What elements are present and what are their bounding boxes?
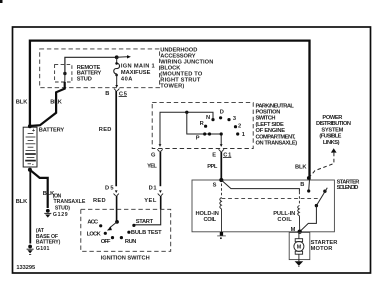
- svg-text:BLK: BLK: [16, 99, 28, 105]
- svg-text:B: B: [105, 91, 109, 97]
- svg-text:COIL: COIL: [204, 217, 217, 223]
- wire: battery positive cable BLK (left riser, top bus, drop to solenoid B): [30, 41, 310, 180]
- svg-text:POSITION: POSITION: [256, 109, 281, 115]
- starter motor symbol: [298, 232, 300, 239]
- svg-text:COIL: COIL: [277, 217, 292, 223]
- svg-text:G101: G101: [36, 246, 50, 252]
- svg-text:BATTERY): BATTERY): [36, 240, 61, 246]
- svg-text:E: E: [212, 153, 216, 159]
- svg-text:-: -: [32, 161, 34, 167]
- svg-text:3: 3: [233, 116, 236, 122]
- svg-text:BLK: BLK: [16, 199, 28, 205]
- ignition switch (dashed box): [81, 209, 171, 251]
- starter motor box: [289, 232, 310, 259]
- svg-text:MAXIFUSE: MAXIFUSE: [121, 70, 151, 76]
- terminal E / C1 (arrow + cup): [220, 144, 223, 147]
- contact 2: [234, 125, 237, 128]
- contact P (pair): [203, 132, 206, 135]
- svg-text:YEL: YEL: [147, 163, 157, 169]
- wire: junction to P contacts and E drop: [187, 112, 221, 146]
- svg-text:BATTERY: BATTERY: [39, 128, 65, 134]
- svg-text:B: B: [300, 182, 304, 188]
- wire RED D5 to ignition switch wiper: [116, 196, 118, 222]
- svg-text:PPL: PPL: [207, 164, 218, 170]
- svg-text:DISTRIBUTION: DISTRIBUTION: [316, 121, 351, 127]
- wiper pivot: [115, 220, 119, 224]
- svg-text:RUN: RUN: [125, 239, 136, 245]
- ground G129: [46, 209, 50, 213]
- svg-text:STUD: STUD: [77, 77, 92, 83]
- svg-text:G129: G129: [53, 212, 68, 218]
- svg-text:M: M: [297, 245, 302, 251]
- svg-text:D1: D1: [149, 185, 157, 191]
- svg-text:START: START: [136, 219, 154, 225]
- svg-text:PARK/NEUTRAL: PARK/NEUTRAL: [256, 103, 295, 109]
- contact 1: [236, 132, 239, 135]
- terminal G (arrow + cup): [159, 144, 162, 147]
- wire YEL D1 to START contact: [160, 196, 162, 210]
- fusible link dashed arrow: [331, 148, 337, 152]
- svg-text:S: S: [213, 182, 217, 188]
- contact ACC: [99, 224, 102, 227]
- svg-text:SYSTEM: SYSTEM: [321, 127, 343, 133]
- underhood accessory wiring junction block (dashed box): [40, 49, 160, 88]
- wire: stud to fuse tap bus: [65, 57, 117, 73]
- junction dot at solenoid B feed: [307, 176, 311, 180]
- pull-in coil: [298, 192, 300, 206]
- connector C5 (terminal arrow + cup): [115, 85, 118, 88]
- wire BLK battery positive to remote stud: [30, 82, 65, 126]
- wire BLK battery negative to G129: [30, 170, 48, 208]
- linkage (dashed): [222, 198, 319, 200]
- svg-text:TOWER): TOWER): [160, 84, 184, 90]
- svg-text:R: R: [200, 121, 204, 127]
- svg-text:LOCK: LOCK: [87, 232, 102, 238]
- svg-text:D: D: [220, 110, 224, 116]
- svg-text:ON TRANSAXLE): ON TRANSAXLE): [256, 141, 298, 147]
- wire PPL E to solenoid S: [220, 152, 222, 180]
- hold-in coil case ground: [220, 232, 223, 236]
- svg-text:BULB TEST: BULB TEST: [131, 230, 162, 236]
- svg-text:OF ENGINE: OF ENGINE: [256, 128, 286, 134]
- svg-text:ACC: ACC: [87, 220, 98, 226]
- junction dot at fuse tap: [115, 55, 119, 59]
- contact RUN: [120, 236, 123, 239]
- wire S to pull-in coil: [221, 180, 299, 192]
- park/neutral position switch (dashed box): [152, 103, 253, 149]
- solenoid contact switch: [315, 204, 318, 207]
- svg-text:G: G: [151, 153, 156, 159]
- svg-text:LINKS): LINKS): [323, 140, 340, 146]
- wire YEL G to D1: [159, 152, 161, 187]
- contact BULB TEST: [127, 231, 130, 234]
- contact OFF: [111, 236, 114, 239]
- svg-text:(FUSIBLE: (FUSIBLE: [319, 134, 341, 140]
- drawing frame: [13, 27, 371, 273]
- svg-text:RED: RED: [99, 127, 112, 133]
- svg-text:BLK: BLK: [295, 165, 307, 171]
- wire: G riser and common bar inside switch: [160, 112, 213, 146]
- svg-text:SOLENOID: SOLENOID: [337, 185, 359, 191]
- terminal S: [219, 178, 223, 182]
- remote battery stud (dashed box): [55, 65, 72, 82]
- page edge artifact: [0, 0, 3, 3]
- contact R: [204, 125, 207, 128]
- svg-text:N: N: [206, 115, 210, 121]
- svg-text:P: P: [196, 135, 200, 141]
- contact D: [219, 116, 222, 119]
- svg-text:BLK: BLK: [50, 99, 62, 105]
- svg-text:YEL: YEL: [144, 198, 157, 204]
- wire RED C5 to D5: [115, 91, 117, 186]
- contact START: [132, 224, 135, 227]
- wire battery negative to G101: [29, 170, 31, 244]
- starter motor ground: [298, 260, 300, 262]
- svg-text:MOTOR: MOTOR: [311, 246, 333, 252]
- contact LOCK: [104, 232, 107, 235]
- svg-text:OFF: OFF: [101, 239, 111, 245]
- svg-text:IGNITION SWITCH: IGNITION SWITCH: [101, 256, 150, 262]
- svg-text:STUD): STUD): [55, 205, 70, 211]
- svg-text:IGN MAIN 1: IGN MAIN 1: [121, 64, 155, 70]
- wiper blade (in LOCK): [110, 222, 118, 228]
- contact N: [211, 118, 214, 121]
- junction node on common bar: [185, 111, 188, 114]
- terminal M: [298, 230, 302, 234]
- ground G101: [28, 245, 32, 249]
- svg-text:1: 1: [242, 132, 245, 138]
- svg-text:133295: 133295: [16, 265, 35, 271]
- battery: [23, 127, 37, 167]
- starter solenoid box: [192, 180, 334, 232]
- svg-text:2: 2: [238, 124, 241, 130]
- svg-text:COMPARTMENT,: COMPARTMENT,: [256, 134, 296, 140]
- svg-text:SWITCH: SWITCH: [256, 116, 276, 122]
- feed arrow to other circuits: [117, 56, 128, 59]
- svg-text:TRANSAXLE: TRANSAXLE: [54, 199, 86, 205]
- fuse IGN MAIN 1 MAXIFUSE 40A: [116, 57, 118, 63]
- hold-in coil: [221, 184, 223, 198]
- svg-text:POWER: POWER: [322, 115, 342, 121]
- svg-text:RED: RED: [93, 198, 106, 204]
- svg-text:40A: 40A: [121, 76, 132, 82]
- svg-text:(LEFT SIDE: (LEFT SIDE: [256, 122, 285, 128]
- contact 3: [227, 118, 230, 121]
